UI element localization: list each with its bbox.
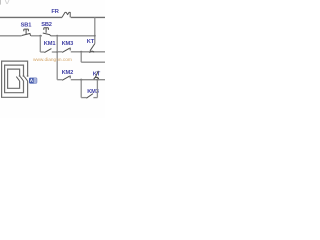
svg-text:KM3: KM3 <box>62 41 74 47</box>
drum switch outer contact <box>24 77 27 81</box>
svg-text:KM1: KM1 <box>44 41 56 47</box>
drum switch inner terminal dot <box>19 75 21 77</box>
contact KT2 (NO delayed) <box>94 71 99 80</box>
svg-text:www.diangon.com: www.diangon.com <box>33 57 72 63</box>
junction KM3-NO branch left <box>80 79 82 81</box>
wire: vertical from bus to KT1 <box>94 17 96 43</box>
junction KT2 on KM2 row <box>96 79 98 81</box>
drum switch outer loop <box>2 61 28 97</box>
wire: KM3-NO branch right vertical <box>96 80 98 98</box>
wire: control row SB1 to SB2 <box>31 35 42 37</box>
svg-text:FR: FR <box>51 9 58 15</box>
wire: control row from left edge to SB1 <box>0 35 22 37</box>
wire: jog vertical row2 down to y62 <box>80 52 82 62</box>
junction row2 to jog <box>80 51 82 53</box>
wire: KM1 branch bottom left <box>40 51 44 53</box>
drum switch inner contact <box>16 77 19 81</box>
svg-text:SB2: SB2 <box>41 22 52 28</box>
wire: row2 from node A to KM3 contact <box>57 51 62 53</box>
pushbutton SB1 (stop, NC) <box>22 29 31 36</box>
contact KM3 (NO) lower branch <box>86 94 93 99</box>
drum switch outer terminal dot <box>27 75 29 77</box>
pushbutton SB2 (start, NO) <box>43 28 51 36</box>
wire: KM1 branch left vertical <box>39 36 41 52</box>
junction node at SB2 left <box>39 35 41 37</box>
contact KM2 (NC) <box>62 76 70 81</box>
watermark tag <box>29 78 37 84</box>
wire: KM2 row to right edge <box>71 79 105 81</box>
contact KM3 (NC) row2 <box>62 48 70 53</box>
contact KM1 (NO, self-hold) <box>44 49 51 53</box>
junction node A row2 <box>56 51 58 53</box>
wire: top bus L (right of FR) <box>71 16 105 18</box>
wire: KM1 branch bottom right <box>52 51 57 53</box>
contact KT1 (NO delayed) <box>90 44 95 53</box>
svg-text:KM2: KM2 <box>62 70 74 76</box>
junction node A top <box>56 35 58 37</box>
wire: vertical node A down to KM2 row <box>56 36 58 80</box>
svg-text:KT: KT <box>87 39 95 45</box>
wire: KM2 row from node A corner to contact <box>57 79 62 81</box>
wire: row y62 to right edge <box>81 61 105 63</box>
wire: KM3-NO branch bottom left <box>81 97 86 99</box>
wire: row2 from KM3 to right edge <box>71 51 105 53</box>
wire: control row SB2 to right vertical <box>51 35 95 37</box>
drum switch middle loop <box>5 65 24 93</box>
junction main row and KT1 vertical <box>94 35 96 37</box>
wire: KM3-NO branch bottom right <box>93 97 97 99</box>
corner artifact text fragment <box>0 0 9 5</box>
drum switch inner loop <box>8 69 20 88</box>
wire: KM3-NO branch left vertical <box>80 80 82 98</box>
svg-text:SB1: SB1 <box>21 23 32 29</box>
drum switch middle terminal dot <box>23 75 25 77</box>
drum switch middle contact <box>20 77 23 81</box>
thermal relay FR NC contact <box>62 12 70 17</box>
wire: top bus L (left of FR) <box>0 16 62 18</box>
